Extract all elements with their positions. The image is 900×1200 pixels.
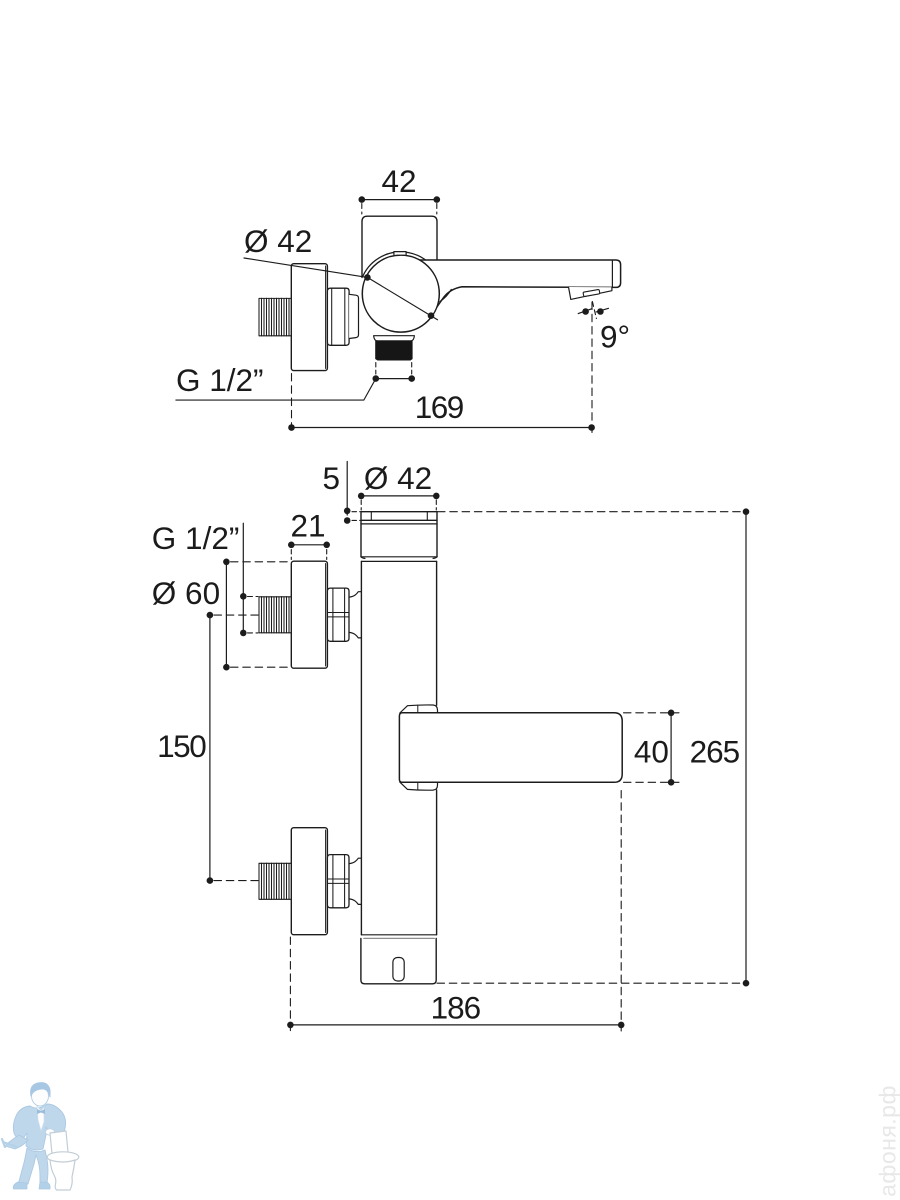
dim 40 dash top [624,712,680,714]
O60 dot top [223,559,230,566]
svg-text:G 1/2”: G 1/2” [152,520,240,556]
spout tip dashed vertical [591,302,593,433]
cap inner verticals [371,512,427,520]
diameter 42 leader line [244,258,438,320]
top escutcheon shadow line [325,564,327,667]
toilet bowl [50,1160,75,1190]
shirt front [37,1106,44,1131]
dim 186 dot left [287,1022,294,1029]
diameter 42 dot left [358,493,365,500]
9deg marker stub right [596,308,608,312]
toilet seat [47,1152,79,1162]
wall plane dashed extension [291,374,293,434]
dim 21 ext dashes [291,550,326,560]
svg-text:150: 150 [157,728,206,764]
plumber watermark figure [2,1083,79,1190]
dim 186 dash left [289,937,291,1031]
dim 265 dot bottom [743,980,750,987]
adapter collar [349,294,358,338]
plumber torso suit [13,1104,65,1150]
top connector escutcheon [291,561,327,668]
svg-text:Ø 42: Ø 42 [244,223,312,259]
svg-text:265: 265 [690,734,740,770]
dim 40 vertical line [670,713,672,783]
dim 21 dot left [288,542,295,549]
dim 186 line [290,1024,621,1026]
dimension 5 dot top [344,508,351,515]
tilted 9deg dashed line [592,302,596,319]
O60 vertical line [225,562,227,667]
dim 40 dot top [668,710,675,717]
diverter slot [393,958,404,982]
bottom connector escutcheon [291,828,327,935]
dimension 169 dot right [588,424,595,431]
svg-text:21: 21 [290,508,325,544]
svg-text:40: 40 [634,734,669,770]
outlet thread dim line [376,378,412,380]
extension dash right [435,500,437,510]
dimension 42 dot left [359,196,366,203]
outer body arc behind valve circle [363,252,443,291]
main body sides [361,561,436,934]
spout body fill [409,260,621,307]
dim G12 front vertical line [242,523,244,633]
9deg marker stub left [578,309,591,314]
handle end-view rounded square [362,216,437,277]
extension dash left [360,500,362,510]
bottom cap [361,939,436,984]
outlet extension dashed right [411,363,413,375]
dim 40 dot bottom [668,779,675,786]
top adapter cone [349,592,361,638]
G12 dot bottom [240,630,247,637]
svg-text:G 1/2”: G 1/2” [176,362,264,398]
G12 dash bottom [248,632,259,634]
extension dashed left [361,204,363,215]
escutcheon edge shadow line [325,266,327,369]
dimension 169 line [292,427,592,429]
tube joint groove [361,557,437,562]
svg-text:Ø 42: Ø 42 [364,460,432,496]
top nut facet lines [328,588,349,641]
collar tick bottom [417,783,419,791]
O60 dash top [231,561,292,563]
top connector hex nut [327,588,349,641]
diameter 42 dot right [433,493,440,500]
dash to cap band [352,519,360,521]
cap band lines [361,520,437,524]
dim 186 dash right [620,791,622,1032]
dim 40 dash bottom [624,781,680,783]
G12 dot top [240,593,247,600]
bottom nut facet lines [328,855,349,908]
handle lever bar [399,713,622,783]
lever collar top [400,705,438,713]
collar tick top [417,705,419,712]
cap notch tab [394,252,406,255]
dim 150 dot bottom [207,877,214,884]
dimension 169 dot left [288,424,295,431]
svg-text:5: 5 [322,460,340,496]
dimension 5 dot bottom [344,517,351,524]
dim 150 vertical line [209,615,211,881]
outlet extension dashed left [375,363,377,375]
9deg marker dot right [597,308,604,315]
plumber bow tie [37,1109,45,1114]
svg-text:169: 169 [415,389,464,425]
hex nut facet lines [332,288,345,345]
svg-text:афоня.рф: афоня.рф [875,1085,900,1197]
O60 dash bottom [231,666,292,668]
aerator housing under tip [569,287,612,299]
svg-text:186: 186 [431,990,481,1026]
plumber hair [31,1083,50,1097]
lever collar bottom [400,782,438,790]
bottom joint groove [361,935,436,939]
diameter 42 front dim line [361,495,436,497]
dim 150 dash top centerline [214,614,258,616]
dim 265 dot top [743,508,750,515]
dimension 42 line [362,199,437,201]
dim 150 dash bottom centerline [214,880,258,882]
bottom adapter cone [349,858,361,904]
outlet dim dot right [408,375,415,382]
leader dot on circle lower-right [428,312,435,319]
dim 150 dot top [207,612,214,619]
plumber legs [19,1148,49,1184]
aerator insert [583,289,600,296]
bottom escutcheon shadow line [325,830,327,933]
supply thread pipe (left) [259,298,291,336]
dim 186 dot right [618,1022,625,1029]
svg-text:9°: 9° [600,319,630,355]
dim 265 vertical line [745,512,747,984]
dim 21 line [291,544,326,546]
bottom connector hex nut [327,855,349,908]
G12 dash top [248,596,259,598]
plumber shoes [13,1182,50,1189]
outlet thread block [375,341,412,361]
9deg marker dot left [582,308,589,315]
hex nut [327,288,349,345]
right hand on tank [46,1129,55,1135]
wall escutcheon plate [291,264,327,371]
toilet tank [50,1131,68,1154]
plumber head [32,1086,49,1106]
body top cap [361,512,437,557]
extension dashed right [436,204,438,215]
spout neck fold line [440,289,452,301]
bottom supply connector thread [259,863,291,899]
dim 265 dash top [438,511,747,513]
O60 dot bottom [223,664,230,671]
FRONTVIEW-END [2,1083,900,1197]
plumber left arm with wrench [5,1135,28,1149]
svg-text:42: 42 [381,163,416,199]
spout tip face line [611,260,613,287]
wrench [2,1139,17,1147]
G 1/2 leader polyline [176,379,376,401]
outlet flange [374,336,415,341]
svg-text:Ø 60: Ø 60 [152,575,220,611]
top supply connector thread [259,597,291,633]
leader dot on circle upper-left [364,274,371,281]
dash to cap top [352,511,360,513]
dim 265 dash bottom [437,982,746,984]
dimension 5 vertical line [346,462,348,516]
TOPVIEW-END [152,460,750,1031]
dim 21 dot right [323,542,330,549]
spout outline [420,260,621,307]
dimension 42 dot right [434,196,441,203]
outlet dim dot left [373,375,380,382]
valve body circle [362,255,439,332]
